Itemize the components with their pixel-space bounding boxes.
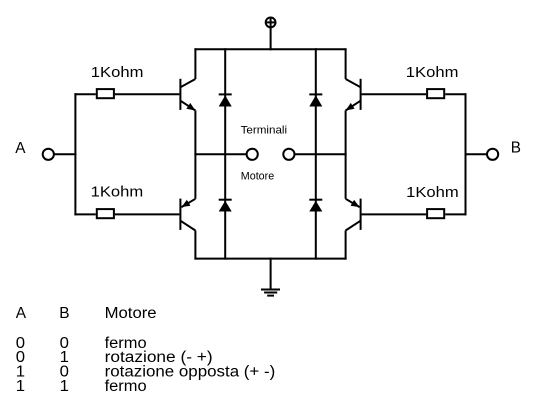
transistor Q4 (lower right PNP) [346, 199, 361, 231]
truth table header [16, 305, 157, 322]
svg-text:1: 1 [60, 378, 69, 395]
wire R3 to right bus [445, 93, 466, 95]
wire right inner vertical (middle) [345, 111, 347, 199]
svg-text:Terminali: Terminali [241, 125, 288, 137]
wire mid left to motor terminal [194, 153, 246, 155]
svg-text:B: B [59, 305, 69, 322]
wire right bus vertical [465, 93, 467, 215]
wire R1 to Q1 base [115, 93, 179, 95]
wire left inner vertical (top) [194, 48, 196, 79]
wire left inner vertical (bottom) [194, 231, 196, 260]
svg-text:1Kohm: 1Kohm [91, 184, 144, 201]
svg-text:A: A [15, 140, 26, 157]
svg-text:B: B [511, 140, 521, 157]
wire bus to R2 [74, 213, 95, 215]
wire Q4 base to R4 [362, 213, 427, 215]
power supply +V symbol [266, 18, 276, 28]
resistor R2 (lower left) [97, 209, 114, 218]
motor terminal right circle [283, 149, 294, 160]
diode D3 (upper right) [309, 94, 322, 106]
terminal A circle [43, 149, 54, 160]
resistor R1 (upper left) [97, 89, 114, 98]
transistor Q3 (upper right NPN) [346, 79, 361, 111]
svg-text:fermo: fermo [105, 378, 147, 395]
resistor R3 (upper right) [427, 89, 444, 98]
truth table row 2 [16, 349, 213, 366]
svg-text:1Kohm: 1Kohm [406, 184, 459, 201]
wire power stem [270, 27, 272, 50]
wire right inner vertical (bottom) [345, 231, 347, 260]
wire right inner vertical (top) [345, 48, 347, 79]
wire top rail [194, 48, 346, 50]
svg-text:Motore: Motore [241, 171, 274, 183]
wire left bus vertical [74, 93, 76, 215]
wire R2 to Q2 base [115, 213, 179, 215]
svg-text:A: A [16, 305, 27, 322]
wire right diode branch vertical [315, 48, 317, 259]
transistor Q2 (lower left PNP) [180, 199, 195, 231]
terminal B circle [487, 149, 498, 160]
svg-text:Motore: Motore [105, 305, 157, 322]
diode D4 (lower right) [309, 200, 322, 212]
diode D2 (lower left) [219, 200, 232, 212]
transistor Q1 (upper left NPN) [180, 79, 195, 111]
motor terminal left circle [247, 149, 258, 160]
svg-text:1: 1 [16, 378, 25, 395]
wire A to left bus [54, 153, 77, 155]
svg-text:1Kohm: 1Kohm [91, 64, 144, 81]
svg-text:1Kohm: 1Kohm [406, 64, 459, 81]
ground [261, 258, 280, 296]
wire bus to R1 [74, 93, 95, 95]
wire bottom rail [194, 258, 346, 260]
diode D1 (upper left) [219, 94, 232, 106]
wire left inner vertical (middle) [194, 111, 196, 199]
truth table row 4 [16, 378, 147, 395]
resistor R4 (lower right) [427, 209, 444, 218]
truth table row 1 [16, 335, 147, 352]
wire left diode branch vertical [224, 48, 226, 259]
wire motor terminal to mid right [295, 153, 347, 155]
wire R4 to right bus [445, 213, 466, 215]
truth table row 3 [16, 364, 276, 381]
wire right bus to B [466, 153, 488, 155]
wire Q3 base to R3 [362, 93, 427, 95]
